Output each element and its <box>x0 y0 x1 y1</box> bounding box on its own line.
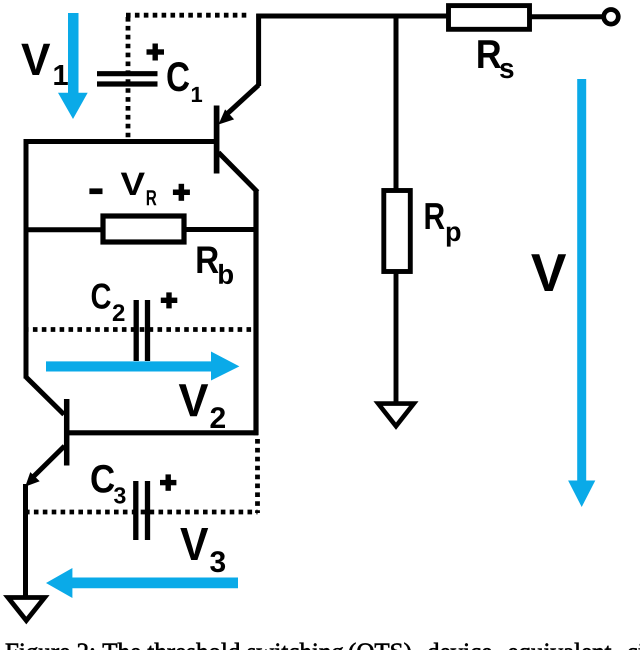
label Rs <box>478 40 501 68</box>
wire: Rs to terminal <box>530 14 603 19</box>
label V1 <box>21 44 50 75</box>
transistor Q2 (NPN) <box>26 377 67 479</box>
wire: dotted vertical through C1 <box>126 17 131 139</box>
label C1 <box>167 62 189 91</box>
resistor Rb <box>103 216 184 242</box>
Q1 emitter arrowhead <box>219 109 235 124</box>
arrow V2 (blue, right) <box>46 352 239 381</box>
label V2 <box>179 384 208 416</box>
resistor Rp <box>384 191 411 272</box>
wire: Q1 base horizontal <box>24 14 604 379</box>
wire: top dotted horizontal <box>126 15 249 139</box>
wire: junction drop to Rp <box>394 16 399 190</box>
wire: Q2 emitter down to ground <box>23 484 28 596</box>
resistor Rs <box>449 6 530 30</box>
capacitor C1 plates <box>97 74 158 84</box>
label V3 <box>180 528 208 560</box>
label VR <box>121 173 145 195</box>
wire: dotted horizontal through C3 <box>25 510 258 515</box>
wire: left rail vertical <box>24 139 29 379</box>
ground under Rp <box>378 404 414 427</box>
capacitor C3 plates <box>136 481 148 540</box>
transistor Q1 (PNP) <box>217 85 259 192</box>
wire: right rail vertical <box>253 190 258 435</box>
terminal circle <box>604 9 619 24</box>
wire: Rb right <box>184 227 258 232</box>
label C3 <box>91 465 114 493</box>
arrow V (blue, down, right side) <box>568 79 595 507</box>
label Rb <box>197 247 218 274</box>
wire: dotted horizontal through C2 <box>24 327 257 332</box>
wire: Rp to ground <box>394 271 399 402</box>
label + for C1 <box>147 44 165 61</box>
wire: Q2 base horizontal <box>66 430 258 435</box>
wire: Rb left <box>24 227 103 232</box>
arrow V1 (blue, down) <box>58 13 88 119</box>
label + for C2 <box>161 292 178 308</box>
label - for VR <box>89 188 102 194</box>
label Rp <box>426 203 445 229</box>
wire: dotted vertical right of C3 <box>255 439 260 513</box>
wire: top rail horizontal to Rs <box>256 14 448 19</box>
label V <box>531 254 566 291</box>
label C2 <box>92 283 111 309</box>
arrow V3 (blue, left) <box>46 568 238 598</box>
caption: Figure 2 <box>6 643 344 650</box>
wire: Q1 emitter top vertical <box>256 14 261 86</box>
Q2 emitter arrowhead <box>25 472 40 487</box>
ground bottom left <box>8 598 45 621</box>
label + for C3 <box>160 474 176 490</box>
capacitor C2 plates <box>136 300 147 361</box>
label + for VR <box>173 184 190 201</box>
